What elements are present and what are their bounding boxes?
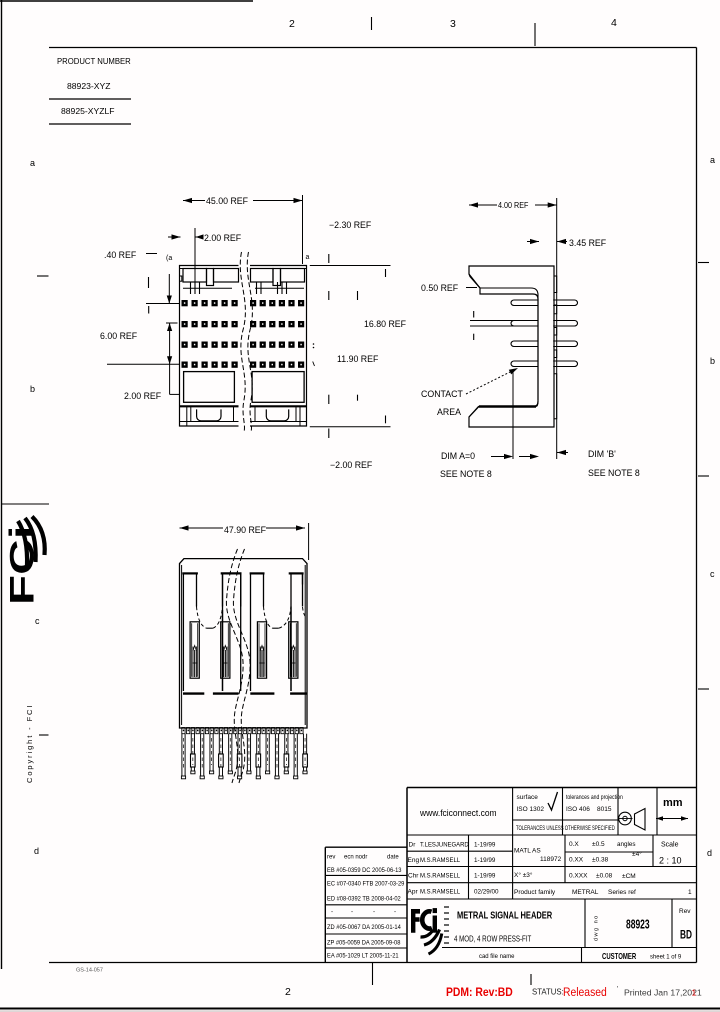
- zone tick bottom x372: [372, 963, 374, 986]
- title block h-line y883: [407, 882, 697, 884]
- svg-text:(a: (a: [166, 255, 172, 262]
- svg-text:M.S.RAMSELL: M.S.RAMSELL: [420, 857, 461, 864]
- title block v-line x512.6: [512, 788, 514, 900]
- svg-text:2 : 10: 2 : 10: [659, 856, 682, 866]
- bottom view pad row: [182, 728, 185, 734]
- svg-text:b: b: [710, 356, 715, 366]
- svg-text:1-19/99: 1-19/99: [474, 873, 496, 880]
- svg-text:tolerances and projection: tolerances and projection: [566, 795, 623, 801]
- zone tick top x371: [371, 17, 373, 30]
- svg-text:angles: angles: [617, 841, 636, 848]
- bells between wafer pairs: [197, 607, 207, 629]
- side view long pin row2: [470, 320, 538, 322]
- side view chamfer top: [469, 274, 480, 288]
- dim 45.00 REF text: [205, 193, 253, 206]
- title block h-line y852 tol: [565, 851, 653, 853]
- front view break line 1: [240, 252, 245, 432]
- svg-text:www.fciconnect.com: www.fciconnect.com: [419, 808, 497, 818]
- svg-text:ED #08-0392 TB 2008-04-02: ED #08-0392 TB 2008-04-02: [327, 896, 401, 902]
- svg-text:AREA: AREA: [437, 407, 461, 417]
- mm arrow: [656, 818, 688, 820]
- svg-text:Rev: Rev: [679, 908, 691, 915]
- dim 45.00 right extension: [302, 195, 304, 264]
- svg-text:3: 3: [450, 18, 456, 30]
- dim A=0 arrows: [491, 456, 504, 458]
- svg-text:Copyright - FCI: Copyright - FCI: [25, 704, 34, 783]
- svg-text:SEE NOTE 8: SEE NOTE 8: [440, 469, 492, 479]
- side view right tabs: [554, 276, 557, 293]
- drawing frame bottom: [49, 962, 697, 964]
- svg-text:METRAL SIGNAL HEADER: METRAL SIGNAL HEADER: [457, 909, 553, 920]
- svg-text:4: 4: [611, 17, 617, 29]
- svg-text:ecn no: ecn no: [344, 855, 363, 861]
- title block v-line x468.5: [468, 835, 470, 899]
- svg-text:45.00 REF: 45.00 REF: [206, 196, 249, 206]
- title block h-line y820: [513, 819, 618, 821]
- side view body outline: [469, 266, 554, 427]
- svg-text:Eng: Eng: [408, 857, 420, 864]
- svg-text:1: 1: [692, 988, 697, 998]
- svg-text:GS-14-057: GS-14-057: [76, 968, 103, 974]
- zone tick right y689: [698, 688, 709, 690]
- bottom view pins: [181, 734, 183, 776]
- svg-text:Apr: Apr: [408, 889, 419, 896]
- page outer border left: [1, 0, 3, 969]
- svg-text:DIM A=0: DIM A=0: [441, 451, 475, 461]
- svg-text:3.45 REF: 3.45 REF: [569, 238, 607, 248]
- side view pins right: [553, 300, 577, 306]
- dim 3.45 REF: [527, 241, 539, 243]
- side view datum line: [556, 198, 558, 459]
- revision table line y875.4: [325, 874, 407, 876]
- front view window left: [184, 372, 235, 403]
- pin thickness ticks: [473, 311, 475, 318]
- svg-text:c: c: [35, 616, 40, 626]
- svg-text:118972: 118972: [540, 856, 562, 863]
- wafer 3: [250, 572, 265, 574]
- svg-text:T.LESJUNEGARD: T.LESJUNEGARD: [420, 841, 469, 848]
- front view foot tab left: [197, 409, 221, 421]
- svg-text:ISO 1302: ISO 1302: [517, 806, 545, 813]
- svg-text:cad file name: cad file name: [479, 953, 515, 960]
- svg-text:6.00 REF: 6.00 REF: [100, 331, 138, 341]
- wafer2 left wall lower: [222, 610, 224, 691]
- dim ticks x357.5: [357, 291, 359, 300]
- svg-text:d: d: [34, 846, 39, 856]
- front view foot block edges: [186, 406, 188, 426]
- bottom view modules: [181, 565, 183, 725]
- svg-text:Chr: Chr: [408, 873, 419, 880]
- surface checkmark: [548, 792, 558, 810]
- svg-text:Printed Jan 17,2021: Printed Jan 17,2021: [624, 988, 702, 998]
- title block h-line y947.5: [442, 947, 697, 949]
- revision table line y948: [325, 947, 407, 949]
- bottom view break line 2: [233, 549, 250, 783]
- revision table line y934: [325, 933, 407, 935]
- front view top rail inner line: [180, 268, 239, 270]
- side view chamfer bottom: [469, 407, 479, 418]
- svg-text:±0.38: ±0.38: [592, 857, 609, 864]
- svg-text:Scale: Scale: [661, 842, 679, 849]
- side view top arm underside: [480, 288, 538, 295]
- revision table top: [325, 846, 407, 848]
- svg-text:ZD #05-0067 DA 2005-01-14: ZD #05-0067 DA 2005-01-14: [327, 925, 401, 931]
- zone tick bottom x531: [530, 974, 532, 985]
- svg-text:88925-XYZLF: 88925-XYZLF: [61, 106, 115, 116]
- front view base heavy line left: [180, 405, 239, 407]
- projection symbol: [619, 812, 632, 825]
- bottom view dim 47.90 REF: [180, 527, 224, 529]
- front view rail post A: [207, 269, 214, 286]
- product table line 1: [49, 98, 131, 100]
- svg-text:PRODUCT NUMBER: PRODUCT NUMBER: [57, 57, 131, 66]
- svg-text:-: -: [394, 909, 396, 916]
- title block v-line x581.5 bottom row: [581, 948, 583, 963]
- dim ticks x385.5: [385, 269, 387, 277]
- svg-text:±4°: ±4°: [632, 850, 642, 858]
- front view foot tab right: [266, 409, 288, 421]
- zone divider left y504: [2, 503, 49, 505]
- svg-text:47.90 REF: 47.90 REF: [224, 525, 267, 535]
- svg-text:0.XX: 0.XX: [569, 857, 584, 864]
- front view rail post B: [273, 269, 281, 286]
- front view rail keys right: [277, 282, 279, 294]
- svg-text:ZP #05-0059 DA 2005-09-08: ZP #05-0059 DA 2005-09-08: [327, 940, 401, 946]
- svg-text:CUSTOMER: CUSTOMER: [602, 953, 636, 961]
- row4 extension line: [107, 363, 180, 365]
- front view contact field: [182, 300, 188, 306]
- svg-text:EC #07-0340 FTB 2007-03-29: EC #07-0340 FTB 2007-03-29: [327, 881, 405, 887]
- front view rail bottom line right: [255, 287, 304, 289]
- wafer 1: [182, 572, 198, 574]
- svg-text:MATL AS: MATL AS: [514, 848, 541, 855]
- svg-text:2: 2: [285, 986, 291, 998]
- drawing frame right: [696, 48, 698, 963]
- wafer4 right edge stub: [302, 575, 304, 585]
- dim B arrow: [557, 450, 566, 455]
- svg-text:a: a: [710, 155, 715, 165]
- bottom right extension line: [310, 426, 391, 428]
- svg-text:DIM 'B': DIM 'B': [588, 449, 616, 459]
- revision table line y904.8: [325, 904, 407, 906]
- svg-text:X° ±3°: X° ±3°: [514, 871, 533, 879]
- dim 45.00 REF line: [183, 200, 303, 202]
- front view rail keys mid: [256, 282, 258, 294]
- front view body outline right half: [250, 266, 307, 427]
- FCI logo title block: [411, 908, 442, 954]
- title block v-line x672 rev cell: [671, 899, 673, 948]
- svg-text:2.00 REF: 2.00 REF: [204, 233, 242, 243]
- svg-text:METRAL: METRAL: [572, 889, 599, 896]
- tick x148 upper: [148, 277, 150, 288]
- svg-text:Product family: Product family: [514, 889, 556, 896]
- dim A extension line: [512, 370, 514, 459]
- svg-text:2.00 REF: 2.00 REF: [124, 391, 162, 401]
- svg-text:4.00 REF: 4.00 REF: [498, 201, 529, 211]
- dim 6.00 REF vertical: [169, 323, 171, 394]
- svg-text:a: a: [30, 158, 35, 168]
- front view foot line left: [180, 421, 239, 423]
- svg-text:EA #05-1029 LT 2005-11-21: EA #05-1029 LT 2005-11-21: [327, 953, 399, 959]
- front view rail block A2: [214, 269, 239, 283]
- svg-text:dr: dr: [362, 855, 367, 861]
- svg-text:b: b: [30, 384, 35, 394]
- svg-text:0.50 REF: 0.50 REF: [421, 283, 459, 293]
- row1 extension line: [146, 303, 180, 305]
- svg-text:88923-XYZ: 88923-XYZ: [67, 81, 110, 91]
- svg-text:d: d: [707, 848, 712, 858]
- FCI logo left margin (rotated): [3, 526, 41, 605]
- row1 dim vertical: [168, 274, 170, 304]
- svg-text:sheet 1 of 9: sheet 1 of 9: [650, 953, 682, 960]
- title block v-line x618: [617, 788, 619, 836]
- copyright FCI vertical text: [25, 704, 34, 783]
- svg-text:a: a: [306, 254, 310, 261]
- dim 2.00 REF arrow2: [196, 234, 204, 239]
- svg-text:−2.30 REF: −2.30 REF: [329, 220, 372, 230]
- front view foot line right: [250, 421, 307, 423]
- bottom view right ext line: [308, 523, 310, 560]
- title block h-line y851 names: [407, 850, 513, 852]
- dim 6.00 REF ext bar: [166, 322, 178, 324]
- top right extension line: [310, 265, 391, 267]
- svg-text:rev: rev: [327, 855, 335, 861]
- svg-text:2: 2: [289, 18, 295, 30]
- row3 leader dots: [313, 343, 315, 345]
- wafer 4: [289, 572, 304, 574]
- zone tick right y262: [698, 262, 709, 264]
- product table line 2: [49, 123, 131, 125]
- title block top line: [407, 787, 697, 789]
- svg-text:-: -: [351, 909, 353, 916]
- dwg no vertical label: [594, 914, 600, 941]
- svg-text:1: 1: [688, 889, 692, 896]
- bottom view break line 1: [226, 549, 243, 783]
- dim 4.00 REF: [469, 202, 478, 207]
- zone tick right y476: [698, 475, 709, 477]
- zone tick top x535: [534, 23, 536, 46]
- svg-text:Series ref: Series ref: [608, 889, 636, 896]
- svg-text:−2.00 REF: −2.00 REF: [330, 460, 373, 470]
- tick x148 lower: [148, 306, 150, 314]
- wafer3 right wall + bell 2: [264, 607, 273, 629]
- svg-text:Dr: Dr: [409, 842, 417, 849]
- title block h-line y899: [407, 898, 697, 900]
- svg-text:±CM: ±CM: [622, 873, 636, 880]
- drawing frame top: [49, 47, 697, 49]
- front view rail bottom line left: [183, 287, 232, 289]
- svg-text:mm: mm: [663, 797, 683, 809]
- svg-text:M.S.RAMSELL: M.S.RAMSELL: [420, 872, 461, 879]
- wafer2 right wall lower: [240, 575, 242, 692]
- svg-text:02/29/00: 02/29/00: [474, 889, 499, 896]
- title block h-line y835: [407, 834, 697, 836]
- svg-text:Released: Released: [563, 986, 607, 999]
- row4 leader mark: [313, 362, 315, 367]
- front view base heavy line right: [250, 405, 307, 407]
- zone tick left y735: [39, 734, 49, 736]
- svg-text:': ': [617, 986, 618, 993]
- page outer border top: [0, 0, 253, 2]
- svg-text:STATUS:: STATUS:: [532, 988, 564, 997]
- svg-text:1-19/99: 1-19/99: [474, 857, 496, 864]
- svg-text:c: c: [710, 569, 715, 579]
- svg-text:±0.5: ±0.5: [592, 841, 605, 848]
- front view body outline left half: [180, 266, 239, 427]
- svg-text:8015: 8015: [597, 806, 612, 813]
- svg-text:±0.08: ±0.08: [596, 873, 613, 880]
- contact area leader: [466, 371, 512, 394]
- zone tick left y276: [37, 275, 49, 277]
- svg-text:0.X: 0.X: [569, 841, 579, 848]
- title block left line: [406, 788, 408, 963]
- svg-text:SEE NOTE 8: SEE NOTE 8: [588, 468, 640, 478]
- page outer border bottom: [0, 1008, 720, 1010]
- dim 2.00 REF ext line: [194, 228, 196, 294]
- svg-text:0.XXX: 0.XXX: [569, 873, 588, 880]
- svg-text:ISO 406: ISO 406: [566, 806, 590, 813]
- svg-text:dwg no: dwg no: [594, 914, 600, 941]
- svg-text:EB #05-0359 DC 2005-06-13: EB #05-0359 DC 2005-06-13: [327, 868, 402, 874]
- title block v-line x585 dwg cell: [584, 899, 586, 948]
- svg-text:1-19/99: 1-19/99: [474, 842, 496, 849]
- title block v-line x565: [564, 835, 566, 883]
- wafer 2: [221, 572, 242, 574]
- revision table left edge: [324, 847, 326, 962]
- front view rail block B2: [281, 269, 305, 283]
- title block v-line x653: [652, 835, 654, 867]
- svg-text:date: date: [387, 855, 399, 861]
- page bottom edge strip: [0, 1010, 720, 1012]
- svg-text:CONTACT: CONTACT: [421, 389, 463, 399]
- svg-text:16.80 REF: 16.80 REF: [364, 319, 407, 329]
- svg-text:surface: surface: [517, 794, 539, 801]
- svg-text:M.S.RAMSELL: M.S.RAMSELL: [420, 888, 461, 895]
- front view window right: [252, 372, 304, 403]
- title separator dashes: [444, 906, 449, 908]
- svg-text:11.90 REF: 11.90 REF: [337, 354, 379, 364]
- side view pins left: [511, 300, 538, 306]
- bottom view body outline: [180, 559, 308, 728]
- svg-text:BD: BD: [680, 929, 692, 942]
- title block v-line x657: [656, 788, 658, 836]
- front view rail block A1: [183, 269, 207, 283]
- revision table line y918: [325, 917, 407, 919]
- svg-text:4 MOD, 4 ROW PRESS-FIT: 4 MOD, 4 ROW PRESS-FIT: [454, 933, 532, 943]
- dim 2.00 REF bottom hook: [170, 393, 180, 395]
- side view bottom arm top heavy: [479, 405, 536, 407]
- side view spine left edge: [537, 295, 539, 400]
- front view left edge notch: [180, 276, 182, 281]
- title block v-line x562.5: [562, 788, 564, 836]
- front view break line 2: [247, 252, 252, 432]
- title block h-line y866: [407, 866, 697, 868]
- front view rail block B1: [251, 269, 274, 283]
- svg-text:.40 REF: .40 REF: [104, 250, 137, 260]
- svg-text:88923: 88923: [626, 918, 650, 932]
- svg-text:-: -: [373, 909, 375, 916]
- front view rail keys left: [190, 282, 192, 294]
- svg-text:-: -: [331, 909, 333, 916]
- dim 2.00 REF arrow: [168, 236, 181, 238]
- svg-text:PDM: Rev:BD: PDM: Rev:BD: [446, 986, 513, 999]
- dim ticks x328.8: [328, 254, 330, 263]
- svg-text:TOLERANCES UNLESS OTHERWISE SP: TOLERANCES UNLESS OTHERWISE SPECIFIED: [516, 825, 615, 832]
